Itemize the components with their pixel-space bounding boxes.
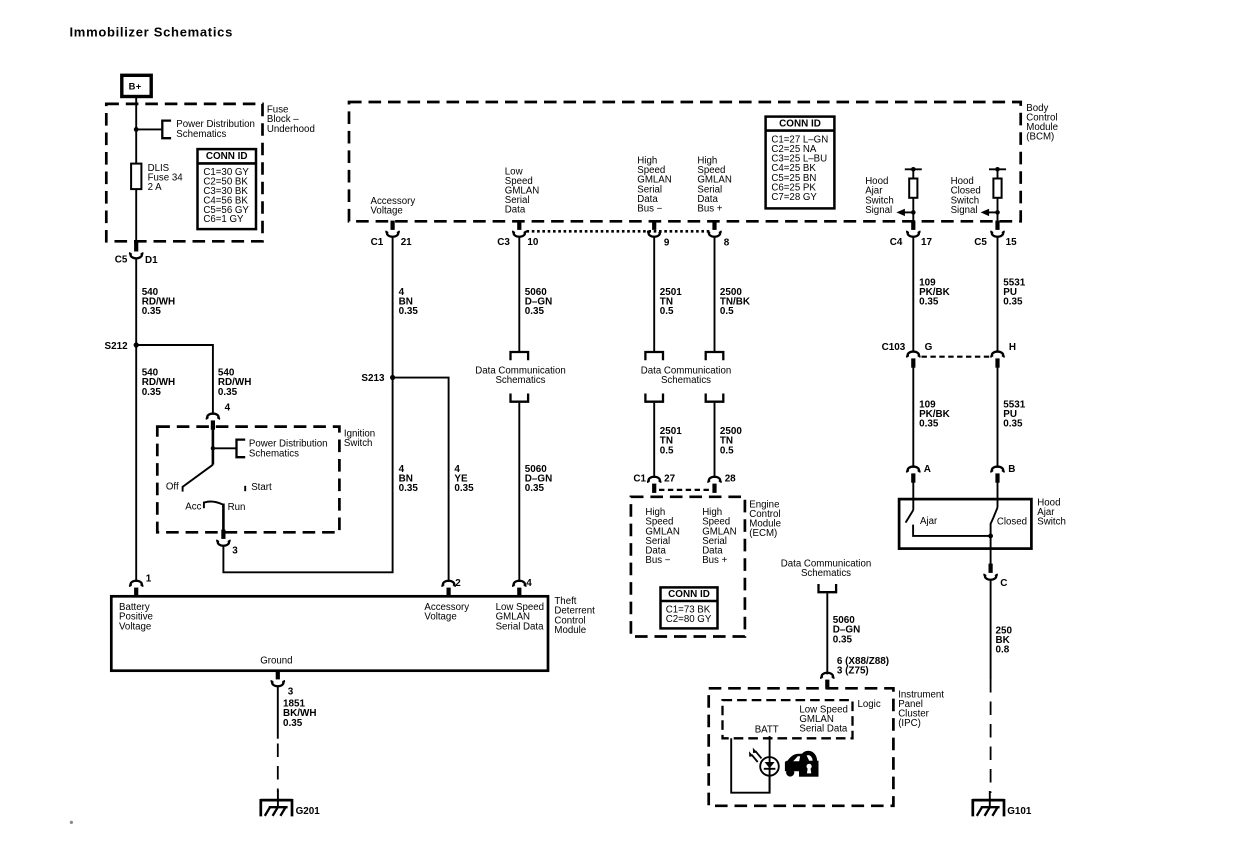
svg-text:0.5: 0.5 — [660, 306, 674, 317]
security indicator LED — [749, 748, 779, 776]
svg-text:S212: S212 — [105, 341, 129, 352]
svg-text:B: B — [1008, 464, 1015, 475]
svg-text:(BCM): (BCM) — [1026, 132, 1054, 143]
svg-text:Switch: Switch — [1037, 517, 1066, 528]
svg-text:(IPC): (IPC) — [898, 718, 921, 729]
LED return wire — [731, 738, 769, 792]
svg-text:Immobilizer Schematics: Immobilizer Schematics — [70, 25, 234, 40]
svg-text:Acc: Acc — [185, 502, 201, 513]
svg-text:Schematics: Schematics — [495, 375, 545, 386]
wire: branch to Power Distribution reference — [136, 128, 162, 130]
engine control module ECM (dashed box) — [631, 497, 745, 637]
wire 2501 TN upper — [653, 237, 655, 351]
theft deterrent control module (solid box) — [111, 596, 548, 670]
resistor: hood closed pull-up (BCM) — [989, 167, 1006, 222]
svg-text:0.35: 0.35 — [283, 718, 303, 729]
in-line connector C103 cavity H — [991, 352, 1003, 368]
svg-text:3 (Z75): 3 (Z75) — [837, 666, 869, 677]
svg-text:0.8: 0.8 — [996, 645, 1010, 656]
dashed wire to G101 — [990, 679, 992, 793]
connector pin 4 (ignition switch) — [207, 414, 219, 430]
svg-text:10: 10 — [527, 237, 538, 248]
svg-text:Data: Data — [505, 205, 526, 216]
svg-text:4: 4 — [526, 578, 532, 589]
svg-text:Bus +: Bus + — [697, 204, 722, 215]
svg-text:D1: D1 — [145, 255, 158, 266]
wire: S212 down to theft deterrent module — [135, 345, 137, 582]
ground G201 — [261, 790, 321, 817]
wire into ignition switch — [212, 428, 215, 465]
connector C1 / 27 (ECM bus-) — [648, 477, 660, 493]
ajar switch blade (open) — [906, 510, 914, 523]
ground G101 — [973, 791, 1032, 817]
svg-text:C: C — [1000, 578, 1007, 589]
wire 1851 BK/WH — [277, 686, 279, 739]
closed switch blade (closed) — [991, 508, 998, 536]
svg-text:Logic: Logic — [858, 699, 881, 710]
reference bracket: Power Distribution Schematics (ignition) — [237, 440, 246, 458]
wire: S213 up to BCM C1/21 — [392, 238, 394, 378]
svg-text:0.35: 0.35 — [833, 634, 853, 645]
reference bracket pair: Data Communication Schematics (high speed) — [645, 352, 663, 360]
scan speck — [70, 821, 73, 824]
CONN ID table (fuse block) — [198, 149, 257, 229]
fuse block - underhood (dashed box) — [106, 104, 262, 241]
svg-text:8: 8 — [724, 238, 730, 249]
svg-text:0.35: 0.35 — [525, 483, 545, 494]
svg-text:C1: C1 — [633, 474, 646, 485]
svg-text:Ground: Ground — [260, 656, 292, 667]
connector 2 (TDCM accessory) — [442, 581, 454, 597]
svg-text:G: G — [925, 342, 933, 353]
dashed link between C103 cavities — [922, 356, 990, 358]
svg-text:Schematics: Schematics — [661, 375, 711, 386]
svg-text:CONN ID: CONN ID — [206, 151, 248, 162]
svg-text:0.35: 0.35 — [399, 306, 419, 317]
connector pin 3 below ignition switch — [217, 530, 229, 546]
dotted twisted-pair line under BCM — [527, 230, 712, 233]
svg-text:(ECM): (ECM) — [749, 528, 777, 539]
svg-text:C5: C5 — [974, 237, 987, 248]
logic block (dashed box) — [723, 700, 853, 738]
svg-text:0.35: 0.35 — [1003, 419, 1023, 430]
svg-text:Serial Data: Serial Data — [496, 621, 545, 632]
ajar contact stub and common wire — [913, 525, 991, 536]
vehicle security icon (car with padlock) — [785, 753, 819, 777]
in-line connector A (hood ajar switch) — [907, 467, 919, 483]
svg-text:2 A: 2 A — [148, 182, 163, 193]
wire 5531 PU upper — [997, 237, 999, 352]
svg-text:15: 15 — [1006, 237, 1017, 248]
svg-text:Underhood: Underhood — [267, 124, 315, 135]
reference bracket: Power Distribution Schematics (fuse block) — [162, 121, 171, 139]
svg-text:Ajar: Ajar — [920, 516, 938, 527]
in-line connector C103 cavity G — [907, 352, 919, 368]
svg-text:G101: G101 — [1007, 806, 1032, 817]
svg-text:CONN ID: CONN ID — [668, 589, 710, 600]
svg-text:Voltage: Voltage — [371, 206, 403, 217]
battery feed B+ terminal — [122, 75, 151, 96]
wire BATT through LED — [769, 736, 771, 793]
svg-text:A: A — [924, 464, 931, 475]
instrument panel cluster IPC (dashed box) — [709, 688, 894, 806]
wire B+ to fuse — [135, 96, 137, 164]
dashed link between ECM connectors — [659, 489, 710, 491]
svg-text:1: 1 — [146, 573, 152, 584]
svg-text:0.5: 0.5 — [720, 445, 734, 456]
wire 540 RD/WH to S212 — [135, 259, 137, 346]
connector C4 / 17 (BCM hood ajar) — [907, 221, 919, 237]
wire 2500 TN/BK upper — [714, 237, 716, 351]
wire B to switch box — [997, 482, 999, 507]
wire 2500 TN lower — [714, 403, 716, 478]
svg-text:Module: Module — [554, 625, 586, 636]
svg-text:0.35: 0.35 — [919, 419, 939, 430]
svg-text:Voltage: Voltage — [119, 621, 151, 632]
hood ajar switch signal arrow — [896, 209, 915, 216]
wire 5531 PU lower — [997, 367, 999, 467]
dashed wire to G201 — [277, 744, 279, 793]
wire: ignition output to S213 branch — [223, 378, 392, 573]
svg-text:Bus −: Bus − — [637, 204, 662, 215]
svg-text:2: 2 — [455, 578, 461, 589]
svg-text:0.35: 0.35 — [218, 387, 238, 398]
connector 28 (ECM bus+) — [708, 477, 720, 493]
wire: S213 branch to theft deterrent module (4 YE) — [393, 378, 449, 582]
hood ajar switch (solid box) — [899, 499, 1031, 548]
svg-text:B+: B+ — [129, 81, 142, 92]
svg-text:17: 17 — [921, 237, 932, 248]
in-line connector C (hood ajar switch common) — [984, 564, 996, 580]
contact bridge Acc-Run — [204, 502, 223, 505]
svg-text:4: 4 — [225, 402, 231, 413]
wire 5060 D-GN upper — [518, 237, 520, 351]
node: junction in fuse block — [134, 127, 139, 132]
node S212 — [134, 342, 139, 347]
svg-text:3: 3 — [232, 545, 238, 556]
svg-text:S213: S213 — [361, 373, 385, 384]
svg-text:21: 21 — [401, 237, 412, 248]
wire fuse to connector C5 — [135, 189, 137, 243]
reference bracket pair: Data Communication Schematics (low speed) — [511, 352, 529, 360]
svg-text:Bus −: Bus − — [645, 555, 670, 566]
svg-text:0.35: 0.35 — [919, 297, 939, 308]
svg-text:C4: C4 — [890, 237, 903, 248]
svg-text:0.5: 0.5 — [720, 306, 734, 317]
connector 3 (TDCM ground) — [272, 670, 284, 686]
wire common to connector C — [990, 536, 992, 565]
wire: S212 branch to ignition switch — [136, 345, 213, 415]
connector C1 / 21 (BCM accessory voltage) — [386, 221, 398, 237]
wire 250 BK — [990, 580, 992, 679]
svg-text:0.35: 0.35 — [142, 306, 162, 317]
node S213 — [390, 375, 395, 380]
body control module BCM (dashed box) — [349, 102, 1021, 221]
svg-text:C7=28 GY: C7=28 GY — [771, 192, 817, 203]
svg-text:9: 9 — [664, 238, 670, 249]
connector at IPC — [821, 673, 833, 689]
svg-text:28: 28 — [725, 474, 736, 485]
fuse DLIS Fuse 34 2A — [131, 163, 183, 193]
connector C5 / 15 (BCM hood closed) — [991, 221, 1003, 237]
svg-text:Bus +: Bus + — [702, 555, 727, 566]
switch blade to Off — [183, 465, 213, 492]
wire Run contact down (thick) — [222, 504, 225, 531]
node: common junction in hood switch — [988, 534, 993, 539]
connector C3 / 10 (BCM low speed GMLAN) — [513, 221, 525, 237]
wire A to switch box — [912, 482, 914, 510]
svg-text:Signal: Signal — [951, 205, 978, 216]
connector C5 / D1 at fuse block exit — [130, 242, 142, 258]
svg-text:Switch: Switch — [344, 438, 373, 449]
node: junction in ignition switch — [211, 446, 215, 450]
svg-text:0.35: 0.35 — [399, 483, 419, 494]
wire to Power Distribution reference (ignition) — [213, 447, 237, 449]
Acc contact tick — [203, 502, 205, 509]
hood closed switch signal arrow — [981, 209, 1000, 216]
svg-text:Voltage: Voltage — [424, 612, 456, 623]
svg-text:0.35: 0.35 — [1003, 297, 1023, 308]
CONN ID table (BCM) — [766, 117, 835, 209]
svg-text:0.5: 0.5 — [660, 445, 674, 456]
svg-text:0.35: 0.35 — [142, 387, 162, 398]
svg-text:C2=80 GY: C2=80 GY — [666, 614, 712, 625]
connector 4 (TDCM serial data) — [513, 581, 525, 597]
svg-text:Off: Off — [166, 481, 179, 492]
svg-text:Schematics: Schematics — [249, 448, 299, 459]
ignition switch (dashed box) — [157, 427, 339, 533]
svg-text:Schematics: Schematics — [801, 568, 851, 579]
connector 9 (BCM high speed bus-) — [648, 221, 660, 237]
Start contact tick — [244, 486, 246, 491]
svg-text:CONN ID: CONN ID — [779, 119, 821, 130]
svg-text:C3: C3 — [497, 237, 510, 248]
in-line connector B (hood ajar switch) — [991, 467, 1003, 483]
svg-text:C103: C103 — [882, 342, 906, 353]
svg-text:Signal: Signal — [865, 205, 892, 216]
svg-text:H: H — [1009, 342, 1016, 353]
CONN ID table (ECM) — [661, 587, 718, 628]
wire 2501 TN lower — [653, 403, 655, 478]
connector 1 (TDCM battery) — [130, 581, 142, 597]
wire 5060 D-GN lower — [518, 403, 520, 582]
svg-text:Closed: Closed — [997, 517, 1027, 528]
svg-text:Run: Run — [228, 502, 246, 513]
svg-text:Start: Start — [251, 482, 272, 493]
connector 8 (BCM high speed bus+) — [708, 221, 720, 237]
resistor: hood ajar pull-up (BCM) — [905, 167, 922, 222]
svg-text:C5: C5 — [115, 254, 128, 265]
wire 109 PK/BK upper — [912, 237, 914, 352]
wire 109 PK/BK lower — [912, 367, 914, 467]
svg-text:0.35: 0.35 — [454, 483, 474, 494]
svg-text:27: 27 — [664, 474, 675, 485]
svg-text:Serial Data: Serial Data — [799, 724, 848, 735]
wire 5060 D-GN to IPC — [826, 593, 828, 674]
svg-text:0.35: 0.35 — [525, 306, 545, 317]
svg-text:C6=1 GY: C6=1 GY — [203, 214, 244, 225]
svg-text:BATT: BATT — [755, 724, 779, 735]
svg-text:Schematics: Schematics — [176, 129, 226, 140]
svg-text:G201: G201 — [296, 806, 321, 817]
svg-text:C1: C1 — [371, 237, 384, 248]
svg-text:3: 3 — [288, 687, 294, 698]
